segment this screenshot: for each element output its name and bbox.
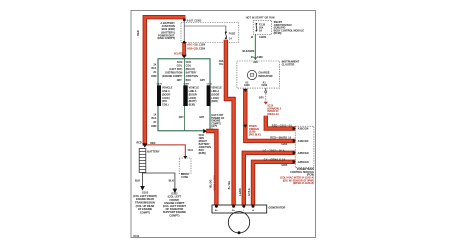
arrow from S100 box <box>203 129 207 134</box>
svg-text:C290: C290 <box>244 84 250 87</box>
svg-text:ORN: ORN <box>151 125 157 128</box>
label vehicle block 3 <box>211 87 222 104</box>
splice text S2 block (red) <box>249 125 261 136</box>
svg-text:COMPT): COMPT) <box>169 213 179 217</box>
arrows into PCM <box>293 127 296 131</box>
svg-text:YEL/OG: YEL/OG <box>210 179 213 188</box>
wire BLK/GRN (green) <box>254 35 256 60</box>
svg-text:0509: 0509 <box>133 234 140 238</box>
svg-text:A2BO/GN: A2BO/GN <box>298 152 309 155</box>
label G102 block <box>163 192 187 218</box>
svg-text:(RED-LG): (RED-LG) <box>267 113 278 116</box>
svg-text:S-107 C1002: S-107 C1002 <box>187 20 202 23</box>
generator G1 <box>212 205 267 234</box>
svg-text:(RELAY): (RELAY) <box>186 68 196 71</box>
svg-text:GRY: GRY <box>200 79 205 82</box>
svg-text:BOX: BOX <box>186 79 192 82</box>
wire dashed drop <box>265 93 267 101</box>
wire battery negative left <box>142 172 144 186</box>
SJB fuse box (dashed) <box>253 20 272 34</box>
svg-text:RED: RED <box>137 30 140 35</box>
label 5100 ORN block <box>199 134 211 155</box>
fuse F1.2 <box>225 31 227 39</box>
indicator lamp (charge) <box>247 70 256 79</box>
svg-text:BLK: BLK <box>169 178 174 182</box>
svg-text:RED—2301—10: RED—2301—10 <box>272 125 293 128</box>
svg-text:2C: 2C <box>153 71 156 74</box>
wire fuse to generator B+ (thick red) <box>226 40 234 205</box>
svg-text:BATTERY: BATTERY <box>147 149 160 153</box>
svg-text:A28: A28 <box>253 61 258 64</box>
divider <box>183 59 185 131</box>
label S100 right half <box>186 61 198 82</box>
svg-text:(P/O BLK): (P/O BLK) <box>249 133 261 136</box>
instrument cluster box (dashed) <box>237 61 280 88</box>
svg-text:GRY: GRY <box>259 96 264 99</box>
svg-text:A1BC/GN: A1BC/GN <box>298 140 309 143</box>
svg-text:5A: 5A <box>259 29 262 32</box>
wire generator I to PCM (thick red) <box>244 153 296 205</box>
svg-text:HDC–CBL: HDC–CBL <box>187 44 199 47</box>
connector C190 bar <box>207 85 211 106</box>
svg-text:C190: C190 <box>207 83 213 85</box>
svg-text:5101: 5101 <box>188 149 194 152</box>
svg-text:DISTRIBUTION: DISTRIBUTION <box>165 72 182 75</box>
svg-text:FUSE: FUSE <box>229 32 236 35</box>
svg-text:BLK: BLK <box>151 67 156 70</box>
svg-text:A2BO/GN: A2BO/GN <box>298 161 309 164</box>
wire S100 to generator B+ (thick red) <box>206 131 216 205</box>
svg-text:(INTER 04 118G-B): (INTER 04 118G-B) <box>293 182 314 185</box>
svg-text:(BCM)): (BCM)) <box>274 32 282 35</box>
arrow at cluster A5 <box>243 89 248 92</box>
ground G102 arrow <box>173 189 178 194</box>
arrow into S100 box <box>182 55 187 59</box>
connector C290 ring <box>265 91 267 93</box>
svg-text:FUSE: FUSE <box>181 175 188 179</box>
svg-text:CLUSTER: CLUSTER <box>282 63 295 67</box>
label PCM description <box>280 168 314 185</box>
svg-text:(BJB): (BJB) <box>189 104 196 107</box>
ground G104 arrow <box>140 186 145 191</box>
svg-text:COMPT): COMPT) <box>140 210 150 214</box>
svg-text:GY/LG: GY/LG <box>248 188 251 196</box>
svg-text:S1B4: S1B4 <box>281 143 288 146</box>
battery junction box BJB (dashed) <box>181 23 239 43</box>
label vehicle block 2 <box>189 87 200 107</box>
label vehicle block 1 <box>162 87 173 107</box>
wire battery negative right <box>143 173 175 189</box>
svg-text:C175: C175 <box>157 83 163 85</box>
battery B1 <box>139 149 146 173</box>
svg-text:LG/RD: LG/RD <box>239 188 242 196</box>
label G104 block <box>133 191 157 215</box>
svg-text:RED: RED <box>150 142 155 145</box>
svg-text:(ENGINE COMPT): (ENGINE COMPT) <box>162 75 182 78</box>
svg-text:GRY: GRY <box>199 116 204 119</box>
wire cluster A1 to PCM (thick red) <box>266 116 296 129</box>
svg-text:C290: C290 <box>261 84 267 87</box>
svg-text:ORN/LG GEN: ORN/LG GEN <box>213 175 216 190</box>
svg-text:C280: C280 <box>257 56 263 59</box>
label BJB description <box>157 21 175 40</box>
svg-text:(BJB)): (BJB)) <box>199 152 206 155</box>
wire BJB output segment <box>182 42 186 57</box>
svg-text:(LEFT FRT): (LEFT FRT) <box>169 68 182 71</box>
fuse F2.30 <box>256 23 258 32</box>
wire generator A to PCM (thick red) <box>253 162 296 205</box>
label S100 left half <box>162 61 183 78</box>
svg-text:B+ YEL: B+ YEL <box>228 180 231 189</box>
svg-text:HOT IN START OR RUN: HOT IN START OR RUN <box>246 17 275 20</box>
generator terminal dots <box>215 205 218 208</box>
svg-text:BOX (BJB): BOX (BJB) <box>162 27 175 31</box>
label LEFT FRT block <box>211 114 225 131</box>
megafuse box (dashed) <box>179 158 191 174</box>
svg-text:2A: 2A <box>153 63 156 66</box>
arrow into cluster <box>254 57 258 60</box>
wire battery feed (thick red) <box>145 17 186 145</box>
svg-text:A1BC/GN: A1BC/GN <box>298 128 309 131</box>
svg-text:BATTERY: BATTERY <box>186 72 197 75</box>
svg-text:1A: 1A <box>153 113 156 116</box>
svg-text:BLK/GRN: BLK/GRN <box>242 49 254 53</box>
splice S107 <box>183 18 186 21</box>
label 1A BLK 2C ORN lower <box>151 113 157 127</box>
svg-text:RED: RED <box>137 142 142 145</box>
svg-text:GY—ORN/LG 18: GY—ORN/LG 18 <box>264 158 286 161</box>
svg-text:HDB–CBL: HDB–CBL <box>187 47 199 50</box>
wire BJB internal to fuse <box>184 26 226 31</box>
wire BJB internal drop <box>183 21 185 42</box>
label 2A BLK 2C ORN upper <box>151 63 157 77</box>
label SJB description <box>274 21 305 35</box>
svg-text:S1B5: S1B5 <box>281 164 288 167</box>
svg-text:INDICATOR: INDICATOR <box>258 74 272 78</box>
battery feed arrow <box>142 143 147 147</box>
svg-text:BLK: BLK <box>151 117 156 120</box>
svg-text:LG—2302—18 A: LG—2302—18 A <box>263 149 285 152</box>
svg-text:GRY: GRY <box>179 116 184 119</box>
wire battery to megafuse (thin red) <box>147 145 185 156</box>
svg-text:COIL): COIL) <box>162 104 169 107</box>
svg-text:C1B4: C1B4 <box>199 44 206 47</box>
svg-text:(BJB): (BJB) <box>211 100 218 103</box>
svg-text:M: M <box>251 36 253 39</box>
svg-text:C1B0: C1B0 <box>183 83 189 85</box>
svg-text:BLK: BLK <box>135 178 140 182</box>
wire cluster A1 pigtail <box>265 88 267 90</box>
svg-text:YEL/RD: YEL/RD <box>174 53 183 56</box>
svg-text:GRY: GRY <box>177 79 182 82</box>
connector C175 bar <box>157 85 161 106</box>
svg-text:(ENG COMPT): (ENG COMPT) <box>157 36 175 40</box>
S100 relay box (green) <box>158 59 210 131</box>
svg-text:C2B4: C2B4 <box>199 47 206 50</box>
border frame <box>131 11 316 238</box>
svg-text:RED—BN/RD 10: RED—BN/RD 10 <box>270 137 291 140</box>
svg-text:ORN: ORN <box>151 75 157 78</box>
connector C1B0 bar <box>183 85 187 106</box>
PCM box (dashed) <box>295 126 314 167</box>
svg-text:2C: 2C <box>153 121 156 124</box>
arrow into megafuse <box>183 156 187 159</box>
arrow red <box>264 102 268 105</box>
svg-text:YEL: YEL <box>219 63 224 66</box>
splice text S214 block (red) <box>267 105 281 116</box>
wire cluster A5 to PCM (thick red) <box>245 89 295 141</box>
svg-text:GENERATOR: GENERATOR <box>268 205 285 209</box>
svg-text:JUNCTION: JUNCTION <box>186 75 198 78</box>
junction dot <box>183 41 186 44</box>
svg-text:C2280: C2280 <box>259 36 267 39</box>
connector arrow on wire <box>243 125 247 128</box>
